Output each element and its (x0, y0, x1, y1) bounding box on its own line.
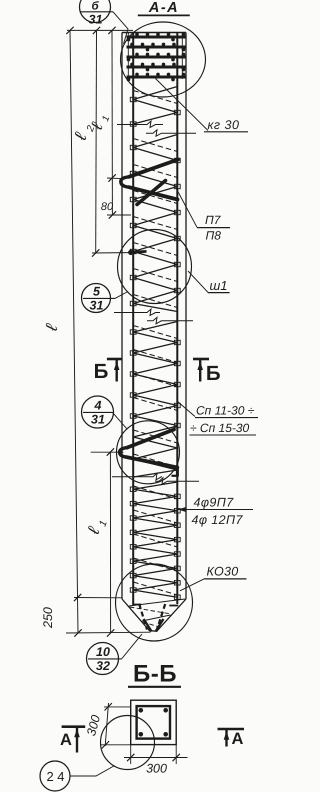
svg-text:÷ Сп 15-30: ÷ Сп 15-30 (190, 421, 250, 435)
svg-text:А: А (60, 731, 72, 749)
svg-text:Сп 11-30 ÷: Сп 11-30 ÷ (196, 404, 255, 418)
svg-text:300: 300 (146, 762, 167, 776)
svg-text:4φ 12П7: 4φ 12П7 (192, 513, 244, 527)
svg-text:250: 250 (41, 607, 55, 629)
svg-text:4φ9П7: 4φ9П7 (194, 496, 235, 510)
svg-text:80: 80 (101, 201, 114, 213)
svg-text:2 4: 2 4 (46, 769, 64, 784)
svg-text:кг 30: кг 30 (208, 118, 240, 132)
svg-text:5: 5 (93, 284, 101, 298)
svg-text:А: А (232, 730, 244, 748)
svg-text:ш1: ш1 (210, 278, 228, 293)
svg-text:П7: П7 (205, 213, 222, 227)
svg-text:Б: Б (206, 362, 221, 385)
svg-text:Б: Б (94, 360, 109, 383)
svg-text:б: б (91, 0, 99, 12)
svg-text:31: 31 (89, 13, 103, 27)
svg-text:П8: П8 (206, 229, 222, 243)
svg-text:31: 31 (90, 299, 104, 313)
svg-text:КО30: КО30 (207, 565, 239, 579)
svg-text:32: 32 (96, 659, 110, 673)
svg-text:Б-Б: Б-Б (133, 661, 177, 688)
svg-text:31: 31 (91, 413, 105, 427)
svg-text:4: 4 (94, 398, 102, 412)
svg-text:А-А: А-А (148, 0, 179, 16)
svg-text:10: 10 (96, 645, 110, 659)
